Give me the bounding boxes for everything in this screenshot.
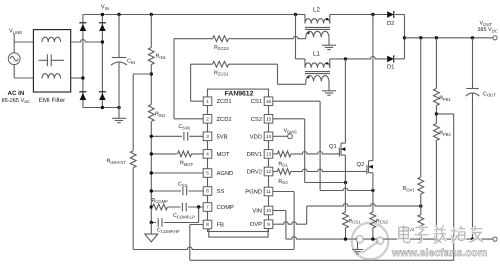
svg-text:Q2: Q2 <box>357 161 365 168</box>
svg-text:MOT: MOT <box>217 151 230 158</box>
svg-text:ZCD2: ZCD2 <box>217 116 232 123</box>
svg-text:DRV2: DRV2 <box>247 169 262 176</box>
svg-text:D2: D2 <box>387 20 394 27</box>
svg-text:D1: D1 <box>387 65 394 71</box>
svg-text:OVP: OVP <box>250 221 262 228</box>
svg-text:9: 9 <box>267 222 270 227</box>
svg-text:COMP: COMP <box>217 204 235 211</box>
svg-text:VIN: VIN <box>252 209 262 215</box>
svg-text:4: 4 <box>206 152 209 157</box>
svg-text:RZCD1: RZCD1 <box>214 70 230 76</box>
svg-text:EMI Filter: EMI Filter <box>39 97 65 104</box>
svg-text:RG1: RG1 <box>278 161 288 167</box>
svg-text:CSS: CSS <box>178 182 188 188</box>
svg-text:Q1: Q1 <box>329 143 337 150</box>
svg-text:RZCD2: RZCD2 <box>214 45 230 51</box>
svg-text:RFB1: RFB1 <box>439 96 451 102</box>
svg-text:7: 7 <box>206 205 209 210</box>
svg-text:L1: L1 <box>313 51 320 58</box>
svg-text:RG2: RG2 <box>278 179 288 185</box>
svg-text:ZCD1: ZCD1 <box>217 98 232 105</box>
svg-text:AC IN: AC IN <box>8 90 25 97</box>
svg-text:16: 16 <box>266 99 272 104</box>
svg-text:RIN1: RIN1 <box>156 54 167 60</box>
svg-text:FAN9612: FAN9612 <box>225 91 254 98</box>
svg-text:CS2: CS2 <box>251 116 262 123</box>
svg-text:C5VB: C5VB <box>178 124 190 130</box>
svg-text:SS: SS <box>217 188 225 195</box>
svg-text:2: 2 <box>206 117 209 122</box>
svg-text:AGND: AGND <box>217 170 234 177</box>
svg-text:10: 10 <box>266 208 272 213</box>
svg-text:CCOMP,LP: CCOMP,LP <box>173 213 195 219</box>
svg-text:5: 5 <box>206 171 209 176</box>
svg-text:RFB2: RFB2 <box>439 131 451 137</box>
svg-text:RIN2: RIN2 <box>155 112 166 118</box>
svg-text:VLINE: VLINE <box>9 29 22 35</box>
svg-text:VBIAS: VBIAS <box>284 128 297 134</box>
svg-text:DRV1: DRV1 <box>247 152 262 158</box>
svg-text:85-265 VAC: 85-265 VAC <box>2 98 31 104</box>
svg-text:RINHYST: RINHYST <box>107 159 127 165</box>
svg-text:PGND: PGND <box>245 189 262 196</box>
svg-text:14: 14 <box>266 134 272 139</box>
svg-text:ROV1: ROV1 <box>403 186 416 192</box>
svg-text:VIN: VIN <box>101 5 109 11</box>
svg-text:CCOMP,HF: CCOMP,HF <box>157 228 180 234</box>
svg-text:12: 12 <box>266 169 272 174</box>
svg-text:L2: L2 <box>313 6 320 13</box>
svg-text:www.elecfans.com: www.elecfans.com <box>391 247 487 259</box>
svg-text:CS1: CS1 <box>251 98 262 105</box>
svg-text:1: 1 <box>206 99 209 104</box>
svg-text:5VB: 5VB <box>217 134 228 140</box>
svg-text:11: 11 <box>266 189 271 194</box>
svg-text:VDD: VDD <box>250 134 262 140</box>
svg-text:15: 15 <box>266 117 272 122</box>
svg-text:385 VDC: 385 VDC <box>478 27 498 33</box>
svg-text:3: 3 <box>206 134 209 139</box>
svg-text:CIN: CIN <box>127 59 135 65</box>
svg-text:FB: FB <box>217 223 225 229</box>
svg-text:13: 13 <box>266 152 272 157</box>
svg-text:VOUT: VOUT <box>480 21 493 27</box>
svg-text:6: 6 <box>206 189 209 194</box>
svg-text:RMOT: RMOT <box>180 161 194 167</box>
svg-text:8: 8 <box>206 222 209 227</box>
svg-text:RCOMP: RCOMP <box>152 198 169 204</box>
svg-text:RCS1: RCS1 <box>349 218 362 224</box>
svg-text:COUT: COUT <box>483 91 496 97</box>
